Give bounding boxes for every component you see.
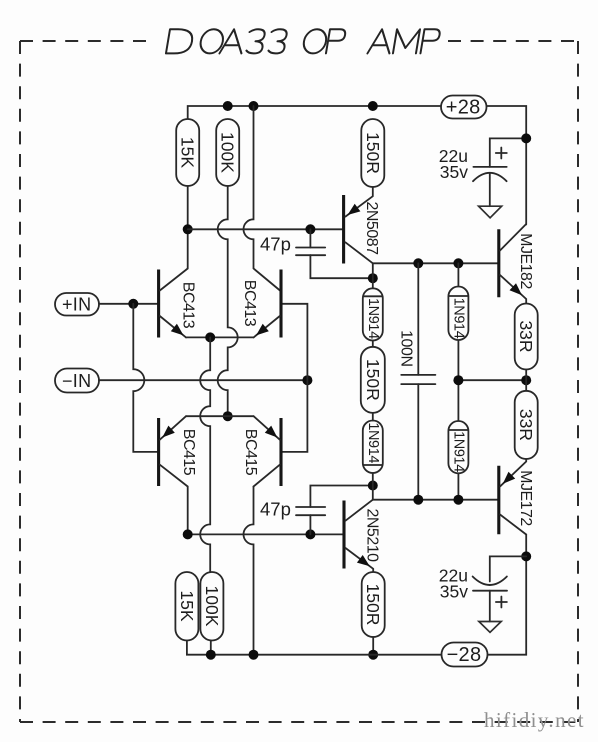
- resistor 33R bottom: [515, 391, 538, 459]
- svg-text:33R: 33R: [516, 409, 536, 441]
- svg-text:MJE172: MJE172: [517, 470, 534, 526]
- diode D4 1N914 bottom right: [448, 380, 468, 500]
- wire Q2 collector column with hop: [244, 106, 281, 291]
- svg-text:1N914: 1N914: [365, 422, 381, 463]
- wire 2N5210 collector to MJE172 base: [373, 499, 498, 501]
- resistor 15K top: [176, 119, 199, 186]
- node top rail junction 100K: [223, 101, 233, 111]
- node D4 bottom junction: [453, 495, 463, 505]
- wire 33R junction links: [525, 370, 527, 391]
- svg-text:15K: 15K: [177, 590, 197, 621]
- transistor Q5 2N5087: [344, 187, 380, 264]
- svg-text:−IN: −IN: [62, 371, 91, 391]
- resistor 33R top: [515, 304, 538, 370]
- input +IN terminal: [55, 293, 99, 316]
- node 100N bottom junction: [413, 495, 423, 505]
- node -IN junction: [302, 375, 312, 385]
- capacitor C4 22u 35v top: [439, 146, 507, 206]
- svg-text:MJE182: MJE182: [517, 233, 534, 289]
- node 100N top junction: [413, 258, 423, 268]
- transistor Q2 BC413: [241, 270, 281, 338]
- svg-text:hifidiy.net: hifidiy.net: [484, 708, 585, 732]
- wire D2 to 2N5210 collector: [372, 473, 374, 500]
- wire 150R middle to D2 link: [372, 413, 374, 421]
- svg-text:1N914: 1N914: [365, 298, 381, 339]
- svg-text:150R: 150R: [363, 132, 383, 174]
- svg-text:100N: 100N: [397, 330, 414, 367]
- wire +28 top rail: [188, 106, 441, 119]
- node 47p bottom tap on VAS collector: [368, 481, 378, 491]
- wire MJE172 collector to -28 rail: [488, 535, 527, 655]
- wire Q4 collector column with hop: [244, 487, 254, 655]
- svg-text:1N914: 1N914: [450, 298, 466, 339]
- wire Q2 base to Q4 base column: [282, 304, 308, 452]
- node top rail junction Q2 collector: [249, 101, 259, 111]
- wire 2N5087 collector to MJE182 base: [373, 263, 498, 288]
- svg-text:35v: 35v: [440, 582, 468, 602]
- wire Q3 collector to 2N5210 base: [188, 487, 343, 535]
- diode D3 1N914 top right: [448, 263, 468, 380]
- resistor 150R top: [361, 119, 384, 187]
- ground symbol bottom: [479, 622, 501, 633]
- wire +28 rail right / MJE182 collector column: [487, 106, 527, 225]
- node D3 D4 junction: [453, 375, 463, 385]
- resistor 15K bottom: [175, 572, 198, 641]
- wire bottom -28 rail: [187, 641, 442, 655]
- svg-text:35v: 35v: [440, 162, 468, 182]
- node 47p top tap on VAS collector: [368, 273, 378, 283]
- svg-text:33R: 33R: [516, 320, 536, 352]
- wire +IN to Q1 base: [99, 303, 157, 305]
- node PNP emitter junction: [223, 411, 233, 421]
- transistor Q6 2N5210: [344, 500, 381, 572]
- node 22u top junction: [521, 133, 531, 143]
- wire output mid rail D3 D4 to 33R junction: [458, 379, 526, 381]
- node NPN emitter junction: [205, 332, 215, 342]
- svg-text:100K: 100K: [202, 586, 222, 627]
- node Q3 collector junction: [183, 529, 193, 539]
- svg-text:+IN: +IN: [62, 295, 91, 315]
- power -28 terminal: [442, 643, 488, 667]
- wire 22u bottom tap: [490, 556, 526, 581]
- capacitor C3 100N: [397, 263, 435, 499]
- svg-text:150R: 150R: [363, 359, 383, 401]
- transistor Q1 BC413: [159, 269, 197, 338]
- svg-text:100K: 100K: [218, 132, 238, 173]
- node 1N914 D3 top junction: [453, 258, 463, 268]
- transistor Q7 MJE182: [499, 225, 534, 304]
- resistor 150R middle: [361, 347, 385, 413]
- svg-text:2N5087: 2N5087: [363, 201, 380, 255]
- resistor 100K top: [216, 119, 239, 186]
- resistor 150R bottom: [362, 572, 385, 637]
- svg-text:150R: 150R: [363, 584, 383, 626]
- node Q1 collector / 2N5087 base junction: [183, 224, 193, 234]
- capacitor C5 22u 35v bottom: [439, 566, 507, 622]
- wire +IN column to Q3 base with hop: [133, 304, 157, 452]
- node 100K rail junction: [206, 650, 216, 660]
- svg-text:47p: 47p: [260, 233, 291, 254]
- wire 2N5087 base line: [188, 228, 343, 230]
- wire NPN pair emitter line: [186, 336, 254, 338]
- wire D1 to 150R middle link: [372, 341, 374, 347]
- node 22u bottom junction: [521, 551, 531, 561]
- ground symbol top: [479, 206, 502, 218]
- resistor 100K bottom: [200, 572, 223, 641]
- transistor Q8 MJE172: [499, 459, 534, 535]
- wire 15K bottom to Q1 collector column: [187, 186, 189, 269]
- wire NPN tail column with hops: [200, 337, 210, 572]
- diode D1 1N914 top middle: [363, 288, 383, 340]
- wire 22u top tap: [490, 138, 526, 167]
- svg-text:47p: 47p: [260, 499, 291, 520]
- node 33R 33R junction: [521, 375, 531, 385]
- input -IN terminal: [55, 369, 99, 393]
- node 47p top junction: [305, 224, 315, 234]
- node 47p bottom junction: [305, 529, 315, 539]
- transistor Q3 BC415: [159, 416, 197, 486]
- wire PNP pair emitter line: [186, 415, 254, 417]
- capacitor C2 47p bottom: [260, 486, 373, 535]
- wire 150R bottom to rail: [372, 637, 374, 655]
- node top rail junction 150R: [368, 101, 378, 111]
- wire 100K top column with hops: [218, 186, 238, 416]
- wire 100K bottom lead: [210, 641, 212, 655]
- svg-text:BC413: BC413: [241, 280, 258, 327]
- transistor Q4 BC415: [242, 416, 281, 486]
- svg-text:15K: 15K: [178, 137, 198, 168]
- diode D2 1N914 bottom middle: [363, 421, 383, 474]
- svg-text:BC415: BC415: [180, 429, 197, 476]
- node +IN junction: [128, 299, 138, 309]
- svg-text:−28: −28: [447, 644, 482, 666]
- svg-text:+28: +28: [446, 97, 481, 119]
- wire -IN to Q2 Q4 base column: [99, 379, 307, 381]
- power +28 terminal: [441, 96, 487, 119]
- svg-text:BC413: BC413: [180, 282, 197, 329]
- svg-text:BC415: BC415: [242, 429, 259, 476]
- capacitor C1 47p top: [260, 229, 373, 278]
- node 150R rail junction: [368, 650, 378, 660]
- svg-text:1N914: 1N914: [450, 431, 466, 472]
- svg-text:2N5210: 2N5210: [364, 508, 381, 562]
- node Q4 collector rail junction: [249, 650, 259, 660]
